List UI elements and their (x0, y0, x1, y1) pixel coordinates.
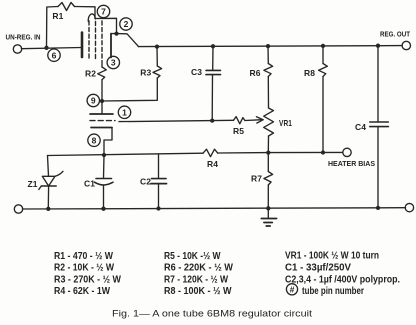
svg-text:R4: R4 (207, 159, 218, 169)
svg-text:R7 - 120K - ½ W: R7 - 120K - ½ W (164, 274, 228, 285)
svg-text:6: 6 (52, 50, 57, 60)
svg-text:R5 - 10K -½ W: R5 - 10K -½ W (164, 251, 221, 262)
svg-text:C3: C3 (191, 67, 202, 77)
svg-text:C1 - 33µf/250V: C1 - 33µf/250V (285, 263, 351, 274)
svg-text:R2 - 10K - ½ W: R2 - 10K - ½ W (54, 263, 114, 274)
svg-text:Fig. 1— A one tube 6BM8 regula: Fig. 1— A one tube 6BM8 regulator circui… (112, 309, 312, 320)
svg-text:C4: C4 (355, 122, 366, 132)
svg-text:3: 3 (111, 58, 116, 68)
svg-text:8: 8 (92, 136, 97, 146)
svg-text:2: 2 (124, 19, 129, 29)
svg-text:R4 - 62K - 1W: R4 - 62K - 1W (54, 286, 110, 297)
svg-text:R8 - 100K - ½ W: R8 - 100K - ½ W (164, 286, 232, 297)
svg-text:R1 - 470 - ½ W: R1 - 470 - ½ W (54, 251, 113, 262)
svg-text:tube pin number: tube pin number (302, 286, 364, 297)
svg-text:R2: R2 (85, 69, 96, 79)
svg-text:REG. OUT: REG. OUT (380, 32, 411, 39)
svg-text:R3: R3 (140, 67, 151, 77)
svg-text:9: 9 (91, 96, 96, 106)
svg-text:Z1: Z1 (28, 179, 38, 189)
svg-text:R8: R8 (304, 68, 315, 78)
svg-text:C2,3,4 - 1µf /400V polyprop.: C2,3,4 - 1µf /400V polyprop. (285, 275, 400, 286)
svg-text:R5: R5 (233, 126, 244, 136)
svg-text:R6 - 220K - ½ W: R6 - 220K - ½ W (164, 263, 234, 274)
svg-text:C1: C1 (84, 179, 95, 189)
svg-text:1: 1 (122, 108, 127, 118)
svg-text:#: # (290, 285, 295, 295)
svg-text:R1: R1 (52, 11, 63, 21)
svg-text:R3 - 270K - ½ W: R3 - 270K - ½ W (54, 274, 121, 285)
svg-text:VR1 - 100K ½ W 10 turn: VR1 - 100K ½ W 10 turn (285, 251, 379, 262)
svg-text:7: 7 (101, 7, 106, 17)
svg-text:R6: R6 (250, 68, 261, 78)
svg-text:C2: C2 (140, 177, 151, 187)
svg-text:UN-REG. IN: UN-REG. IN (6, 34, 41, 41)
svg-text:VR1: VR1 (279, 118, 292, 128)
svg-text:R7: R7 (251, 174, 262, 184)
svg-text:HEATER BIAS: HEATER BIAS (328, 161, 375, 168)
